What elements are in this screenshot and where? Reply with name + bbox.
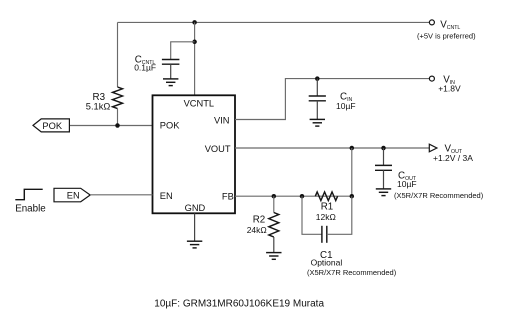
- node junction CIN: [315, 76, 320, 81]
- node junction CCNTL branch: [192, 40, 197, 45]
- wire COUT top lead: [383, 148, 385, 165]
- node junction FB divider drop: [350, 146, 355, 151]
- svg-text:FB: FB: [222, 192, 234, 202]
- capacitor COUT: [375, 165, 392, 170]
- svg-text:VCNTL: VCNTL: [184, 98, 214, 108]
- terminal VIN: [429, 76, 434, 81]
- svg-text:+1.2V / 3A: +1.2V / 3A: [433, 153, 473, 163]
- IC U1 body: [153, 95, 236, 213]
- wire VOUT to FB drop: [351, 148, 353, 196]
- svg-text:+1.8V: +1.8V: [438, 84, 461, 94]
- node junction rail/VCNTL pin: [192, 20, 197, 25]
- svg-text:5.1kΩ: 5.1kΩ: [86, 101, 111, 111]
- flag EN: [54, 188, 90, 202]
- resistor R3: [113, 87, 123, 109]
- svg-text:EN: EN: [160, 191, 173, 201]
- wire FB pin line: [235, 195, 352, 197]
- svg-text:GND: GND: [185, 203, 206, 213]
- wire POK flag to IC: [69, 125, 152, 127]
- wire VIN pin to rail: [235, 79, 429, 120]
- ground R2: [266, 253, 281, 260]
- svg-text:10µF: 10µF: [336, 101, 356, 111]
- resistor R1: [315, 192, 337, 201]
- wire C1 loop left: [302, 196, 322, 234]
- wire top VCNTL rail: [118, 21, 430, 23]
- svg-text:0.1µF: 0.1µF: [134, 62, 156, 72]
- svg-text:Enable: Enable: [15, 203, 46, 214]
- ground COUT: [376, 189, 391, 196]
- wire R2 top lead: [273, 196, 275, 212]
- svg-text:(+5V is preferred): (+5V is preferred): [417, 32, 476, 41]
- svg-text:R1: R1: [321, 202, 334, 213]
- ground CIN: [310, 119, 325, 126]
- node junction COUT: [381, 146, 386, 151]
- node junction R1 right: [350, 194, 355, 199]
- enable step symbol: [15, 189, 42, 199]
- wire VOUT pin to arrow: [235, 147, 429, 149]
- svg-text:Optional: Optional: [311, 257, 343, 267]
- capacitor C1: [322, 226, 327, 243]
- svg-text:R2: R2: [253, 214, 266, 225]
- wire GND pin lead: [194, 213, 196, 241]
- node junction R1 left: [300, 194, 305, 199]
- node junction R2: [272, 194, 277, 199]
- wire R3 bottom lead to POK line: [117, 109, 119, 126]
- svg-text:(X5R/X7R Recommended): (X5R/X7R Recommended): [394, 191, 484, 200]
- wire CCNTL bottom lead: [170, 64, 172, 78]
- svg-text:24kΩ: 24kΩ: [247, 225, 267, 235]
- svg-text:EN: EN: [67, 190, 80, 200]
- wire CCNTL branch: [171, 42, 195, 59]
- capacitor CCNTL: [162, 60, 180, 65]
- ground IC GND: [187, 241, 202, 248]
- wire CIN top lead: [316, 79, 318, 96]
- svg-text:POK: POK: [160, 121, 180, 131]
- wire C1 loop right: [327, 196, 352, 234]
- wire left drop from rail to R3: [117, 22, 119, 87]
- svg-text:12kΩ: 12kΩ: [316, 212, 336, 222]
- terminal VCNTL: [429, 20, 434, 25]
- ground CCNTL: [163, 79, 178, 86]
- resistor R2: [269, 213, 279, 238]
- wire COUT bottom lead: [383, 170, 385, 189]
- svg-text:POK: POK: [42, 121, 62, 131]
- svg-text:VOUT: VOUT: [205, 144, 231, 154]
- wire EN flag to IC: [90, 194, 152, 196]
- svg-text:(X5R/X7R Recommended): (X5R/X7R Recommended): [307, 268, 397, 277]
- wire R2 bottom lead: [273, 237, 275, 253]
- wire VCNTL pin vertical: [194, 22, 196, 95]
- terminal VOUT arrow: [429, 144, 437, 152]
- flag POK: [33, 119, 69, 132]
- svg-text:10µF: GRM31MR60J106KE19 Murata: 10µF: GRM31MR60J106KE19 Murata: [154, 299, 324, 310]
- node junction R3/POK: [115, 123, 120, 128]
- wire CIN bottom lead: [316, 101, 318, 120]
- capacitor CIN: [309, 96, 326, 101]
- svg-text:VIN: VIN: [214, 115, 230, 125]
- svg-text:10µF: 10µF: [397, 179, 417, 189]
